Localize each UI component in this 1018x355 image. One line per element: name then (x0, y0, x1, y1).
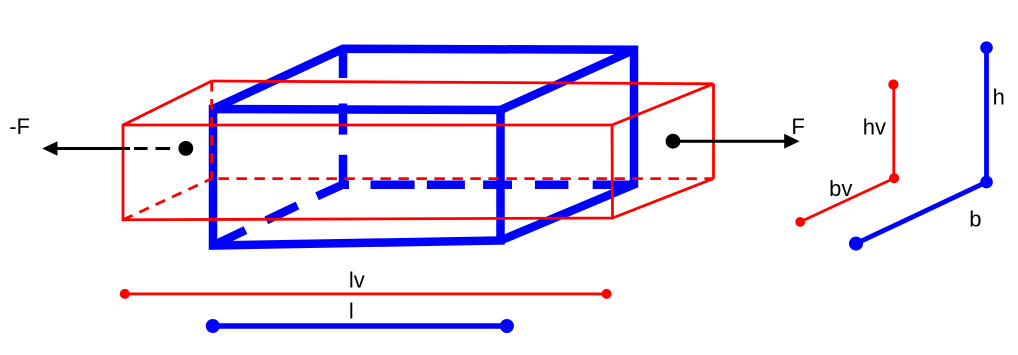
svg-text:h: h (993, 85, 1005, 110)
wire: red hidden bottom-left receding edge (dashed) (123, 179, 212, 220)
dimension l line (blue) (213, 323, 507, 329)
dimension h line (blue vertical) (984, 48, 989, 182)
arrow -F head (42, 141, 57, 156)
wire: blue top-right receding edge (501, 50, 635, 110)
wire: blue front face (213, 109, 501, 246)
wire: blue hidden bottom-left receding edge (dashed) (213, 185, 343, 246)
svg-text:lv: lv (349, 267, 365, 292)
arrow F shaft (673, 140, 785, 143)
wire: red top-right receding edge (612, 84, 714, 125)
wire: red front face (123, 125, 613, 220)
svg-text:l: l (349, 299, 354, 324)
svg-text:F: F (791, 114, 804, 139)
svg-text:-F: -F (9, 114, 30, 139)
node: lv right dot (602, 289, 612, 299)
node: right anchor dot (666, 134, 681, 149)
node: b end dot (849, 237, 863, 251)
node: left anchor dot (178, 141, 193, 156)
wire: blue hidden back-bottom edge (dashed) (343, 180, 630, 189)
dimension lv line (red) (125, 292, 607, 295)
node: lv left dot (120, 289, 130, 299)
svg-text:hv: hv (863, 115, 886, 140)
node: h bottom dot (980, 176, 993, 189)
node: l left dot (206, 319, 220, 333)
svg-text:bv: bv (829, 176, 852, 201)
wire: red bottom-right receding edge (613, 179, 714, 218)
dimension hv line (red vertical) (892, 85, 895, 179)
svg-text:b: b (969, 207, 981, 232)
wire: blue hidden back-left vertical edge (dashed) (339, 49, 348, 185)
node: l right dot (500, 319, 514, 333)
wire: red back top edge (212, 81, 714, 84)
node: hv bottom dot (889, 173, 899, 183)
wire: red hidden back-left vertical edge (dashed) (210, 81, 213, 179)
node: h top dot (980, 41, 993, 54)
wire: black dashed lead from left anchor dot (134, 147, 170, 150)
wire: blue top-left receding edge + back top edge + back right vertical + bottom-right receding edge (213, 49, 634, 241)
node: bv end dot (795, 217, 805, 227)
wire: red hidden back-bottom edge (dashed) (212, 177, 714, 180)
wire: red top-left receding edge (123, 81, 212, 125)
arrow F head (784, 134, 799, 149)
arrow -F shaft (56, 147, 130, 150)
node: hv top dot (888, 79, 898, 89)
wire: red back right vertical edge (712, 84, 715, 179)
dimension bv line (red diagonal) (800, 178, 894, 222)
dimension b line (blue diagonal) (856, 182, 987, 244)
